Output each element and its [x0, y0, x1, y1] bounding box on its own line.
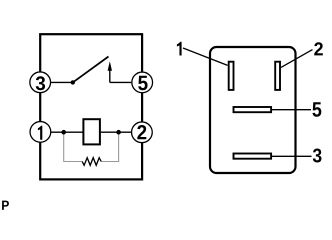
terminal 1 digit: [38, 126, 42, 140]
page marker P: [2, 201, 9, 210]
terminal 5 digit: [138, 76, 147, 91]
connector body (rounded rect): [210, 47, 296, 173]
terminal 2 (circle): [132, 122, 153, 143]
switch actuator arrowhead: [108, 61, 112, 71]
resistor R (zigzag): [82, 158, 101, 166]
leader line pin 5: [272, 109, 311, 111]
pin 2 digit: [314, 42, 323, 55]
terminal 1 (circle): [30, 122, 51, 143]
resistor branch wire left (grey): [64, 132, 82, 161]
relay coil (box): [83, 119, 100, 144]
leader line pin 2: [281, 50, 313, 68]
pin 2 slot: [275, 62, 280, 90]
resistor branch wire right (grey): [101, 132, 118, 161]
terminal 3 (circle): [30, 72, 51, 93]
pin 1 slot: [229, 62, 234, 90]
terminal 3 digit: [36, 76, 45, 90]
pin 5 digit: [312, 102, 321, 117]
relay outline box (left schematic): [40, 34, 142, 179]
wire arrow to terminal 5: [110, 81, 132, 83]
pin 3 slot: [234, 154, 272, 159]
wire terminal 1 to coil: [51, 131, 83, 133]
leader line pin 3: [272, 155, 312, 157]
terminal 2 digit: [137, 125, 146, 139]
wire terminal 3 to switch pivot: [51, 81, 73, 83]
wire coil to terminal 2: [101, 131, 131, 133]
pin 5 slot: [234, 107, 272, 112]
junction node left (dot): [61, 130, 66, 135]
switch actuator arrow shaft: [109, 68, 111, 82]
leader line pin 1: [183, 48, 228, 65]
pin 1 digit: [177, 42, 182, 56]
switch blade (diagonal): [73, 57, 109, 83]
terminal 5 (circle): [132, 72, 153, 93]
switch pivot junction (dot): [71, 80, 75, 84]
pin 3 digit: [313, 149, 322, 163]
junction node right (dot): [116, 130, 121, 135]
